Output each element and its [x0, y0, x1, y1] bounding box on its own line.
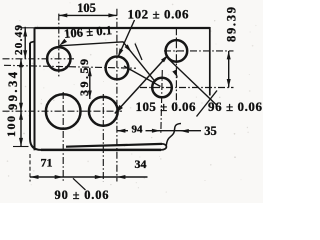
dim line 99.34 and 100 vertical	[20, 59, 22, 147]
slash leader by 96 text	[197, 91, 218, 117]
svg-text:105 ± 0.06: 105 ± 0.06	[136, 99, 197, 114]
dim line bottom chain 71 34	[30, 176, 148, 178]
hole 4 circle	[106, 57, 129, 80]
dim line 105 top	[59, 14, 117, 16]
svg-text:99.34: 99.34	[6, 71, 20, 110]
arrow 100 top	[19, 111, 23, 120]
centerline hole5 vertical	[175, 28, 177, 103]
hole 6 circle	[152, 78, 172, 98]
svg-text:106 ± 0.1: 106 ± 0.1	[64, 23, 113, 41]
svg-text:71: 71	[41, 156, 53, 170]
part outline bottom edge upper (tilted profile)	[66, 144, 162, 147]
arrow 96 leader at hole5	[172, 70, 178, 79]
part outline bottom edge lower	[41, 149, 161, 152]
part outline rounded cap right end	[161, 144, 167, 150]
svg-text:35: 35	[204, 124, 217, 138]
centerline hole4 horizontal	[4, 65, 136, 68]
svg-text:94: 94	[132, 124, 144, 136]
arrow 106 at hole5	[161, 55, 168, 63]
arrow 71 right	[55, 175, 64, 179]
part outline left edge A	[34, 28, 36, 150]
centerline hole1 horizontal	[3, 58, 75, 60]
svg-text:105: 105	[77, 1, 96, 15]
hole 2 circle	[46, 94, 81, 129]
arrow 105 left	[59, 13, 68, 17]
centerline hole6 horizontal	[140, 87, 234, 89]
centerline hole2-hole3 horizontal	[3, 110, 123, 112]
arrow 20.49 bottom	[23, 50, 27, 59]
centerline hole6 vertical	[161, 70, 163, 135]
arrow 89.39 bottom	[227, 79, 231, 88]
arrow 35	[180, 129, 189, 133]
arrow 100 bottom	[19, 138, 23, 147]
centerline hole1 vertical	[58, 14, 60, 78]
part outline corner arc bottom-left	[30, 139, 41, 150]
part outline step left	[30, 41, 35, 42]
break line S-curve	[166, 124, 181, 147]
svg-text:89.39: 89.39	[225, 7, 239, 42]
leader 102 to hole4	[118, 20, 135, 57]
svg-text:96 ± 0.06: 96 ± 0.06	[208, 99, 263, 114]
dim line 94 and 35	[117, 130, 201, 132]
arrow 71 left	[30, 175, 39, 179]
centerline hole3 vertical	[102, 94, 104, 182]
arrow 89.39 top	[227, 51, 231, 60]
diagonal hole4 to hole6	[124, 66, 161, 87]
ext line bottom for 100	[13, 146, 29, 148]
arrow 99.34 bottom	[19, 103, 23, 112]
svg-text:100: 100	[4, 116, 18, 137]
arrow 20.49 top	[23, 28, 27, 37]
arrow 94 left	[117, 129, 126, 133]
leader 90 plus-minus	[73, 178, 86, 190]
arrow 94 right	[152, 129, 161, 133]
arrow 102 leader at hole4	[118, 48, 123, 57]
part outline left edge B	[29, 43, 31, 139]
svg-text:90 ± 0.06: 90 ± 0.06	[55, 188, 109, 202]
svg-text:39.59: 39.59	[77, 59, 91, 96]
centerline hole5 horizontal	[164, 50, 234, 52]
arrow 34 right	[117, 175, 126, 179]
centerline hole2 vertical	[62, 92, 64, 182]
arrow 39.59 bottom	[88, 91, 92, 100]
diagonal 105 hole3 to hole5	[115, 57, 167, 114]
arrow 39.59 top	[88, 68, 92, 77]
arrow 106 bend	[125, 44, 132, 52]
hole 1 circle	[47, 47, 70, 70]
dim line 89.39 vertical right	[228, 51, 230, 88]
hole 3 circle	[89, 97, 118, 126]
spur stroke near 106 bend	[135, 44, 142, 61]
arrow 99.34 top	[19, 59, 23, 68]
arrow 105 right	[108, 13, 117, 17]
arrow 105 diag at hole3	[115, 105, 123, 114]
dim line 39.59 vertical	[89, 68, 91, 99]
dim line 20.49 vertical	[24, 27, 26, 59]
hole 5 circle	[166, 40, 188, 62]
svg-text:34: 34	[135, 157, 147, 171]
arrow 34 left	[95, 175, 104, 179]
dim line 106 plus-minus 0.1 diagonal	[59, 42, 154, 81]
part outline right edge	[209, 27, 211, 96]
ext line top for 20.49	[19, 27, 37, 29]
arrow 106 at hole1	[59, 39, 67, 46]
centerline hole4 vertical	[116, 9, 118, 182]
svg-text:102 ± 0.06: 102 ± 0.06	[128, 7, 190, 22]
svg-text:20.49: 20.49	[13, 25, 25, 56]
diagonal 96 leader from hole5	[168, 59, 216, 105]
part outline top edge	[35, 27, 210, 29]
ext line bottom-left vertical	[29, 154, 31, 182]
label 94	[128, 125, 146, 134]
